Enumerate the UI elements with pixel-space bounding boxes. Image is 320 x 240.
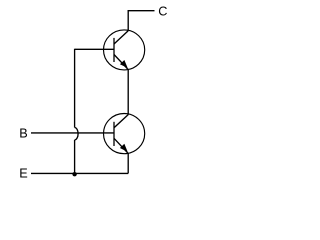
Q1 base bar bbox=[113, 38, 115, 62]
Q2 collector diagonal bbox=[114, 115, 128, 128]
svg-text:C: C bbox=[158, 5, 167, 19]
Q1 collector diagonal bbox=[114, 31, 128, 44]
wire Q1 base down to emitter node (lower segment) bbox=[74, 140, 76, 174]
wire Q1 base lead bbox=[75, 48, 114, 50]
transistor Q1 (top NPN) bbox=[104, 30, 145, 70]
Q2 emitter arrowhead bbox=[121, 145, 127, 152]
svg-text:B: B bbox=[19, 127, 27, 141]
junction dot at E node bbox=[72, 172, 76, 176]
Q2 emitter diagonal bbox=[114, 138, 128, 153]
svg-text:E: E bbox=[19, 166, 27, 180]
wire Q2 emitter lead down bbox=[127, 153, 129, 173]
wire Q1 emitter to Q2 collector bbox=[127, 70, 129, 115]
wire collector lead to C terminal bbox=[128, 11, 154, 31]
Q2 base bar bbox=[113, 122, 115, 146]
Q1 emitter arrowhead bbox=[121, 61, 127, 67]
wire hop over B line bbox=[75, 128, 78, 140]
Q2 circle bbox=[104, 114, 145, 154]
Q1 emitter diagonal bbox=[114, 55, 128, 70]
transistor Q2 (bottom NPN) bbox=[104, 114, 145, 154]
wire Q1 base down to emitter node (upper segment) bbox=[74, 49, 76, 128]
Q1 circle bbox=[104, 30, 145, 70]
wire B base lead bbox=[31, 132, 114, 134]
wire E lead to Q2 emitter bbox=[31, 172, 128, 174]
